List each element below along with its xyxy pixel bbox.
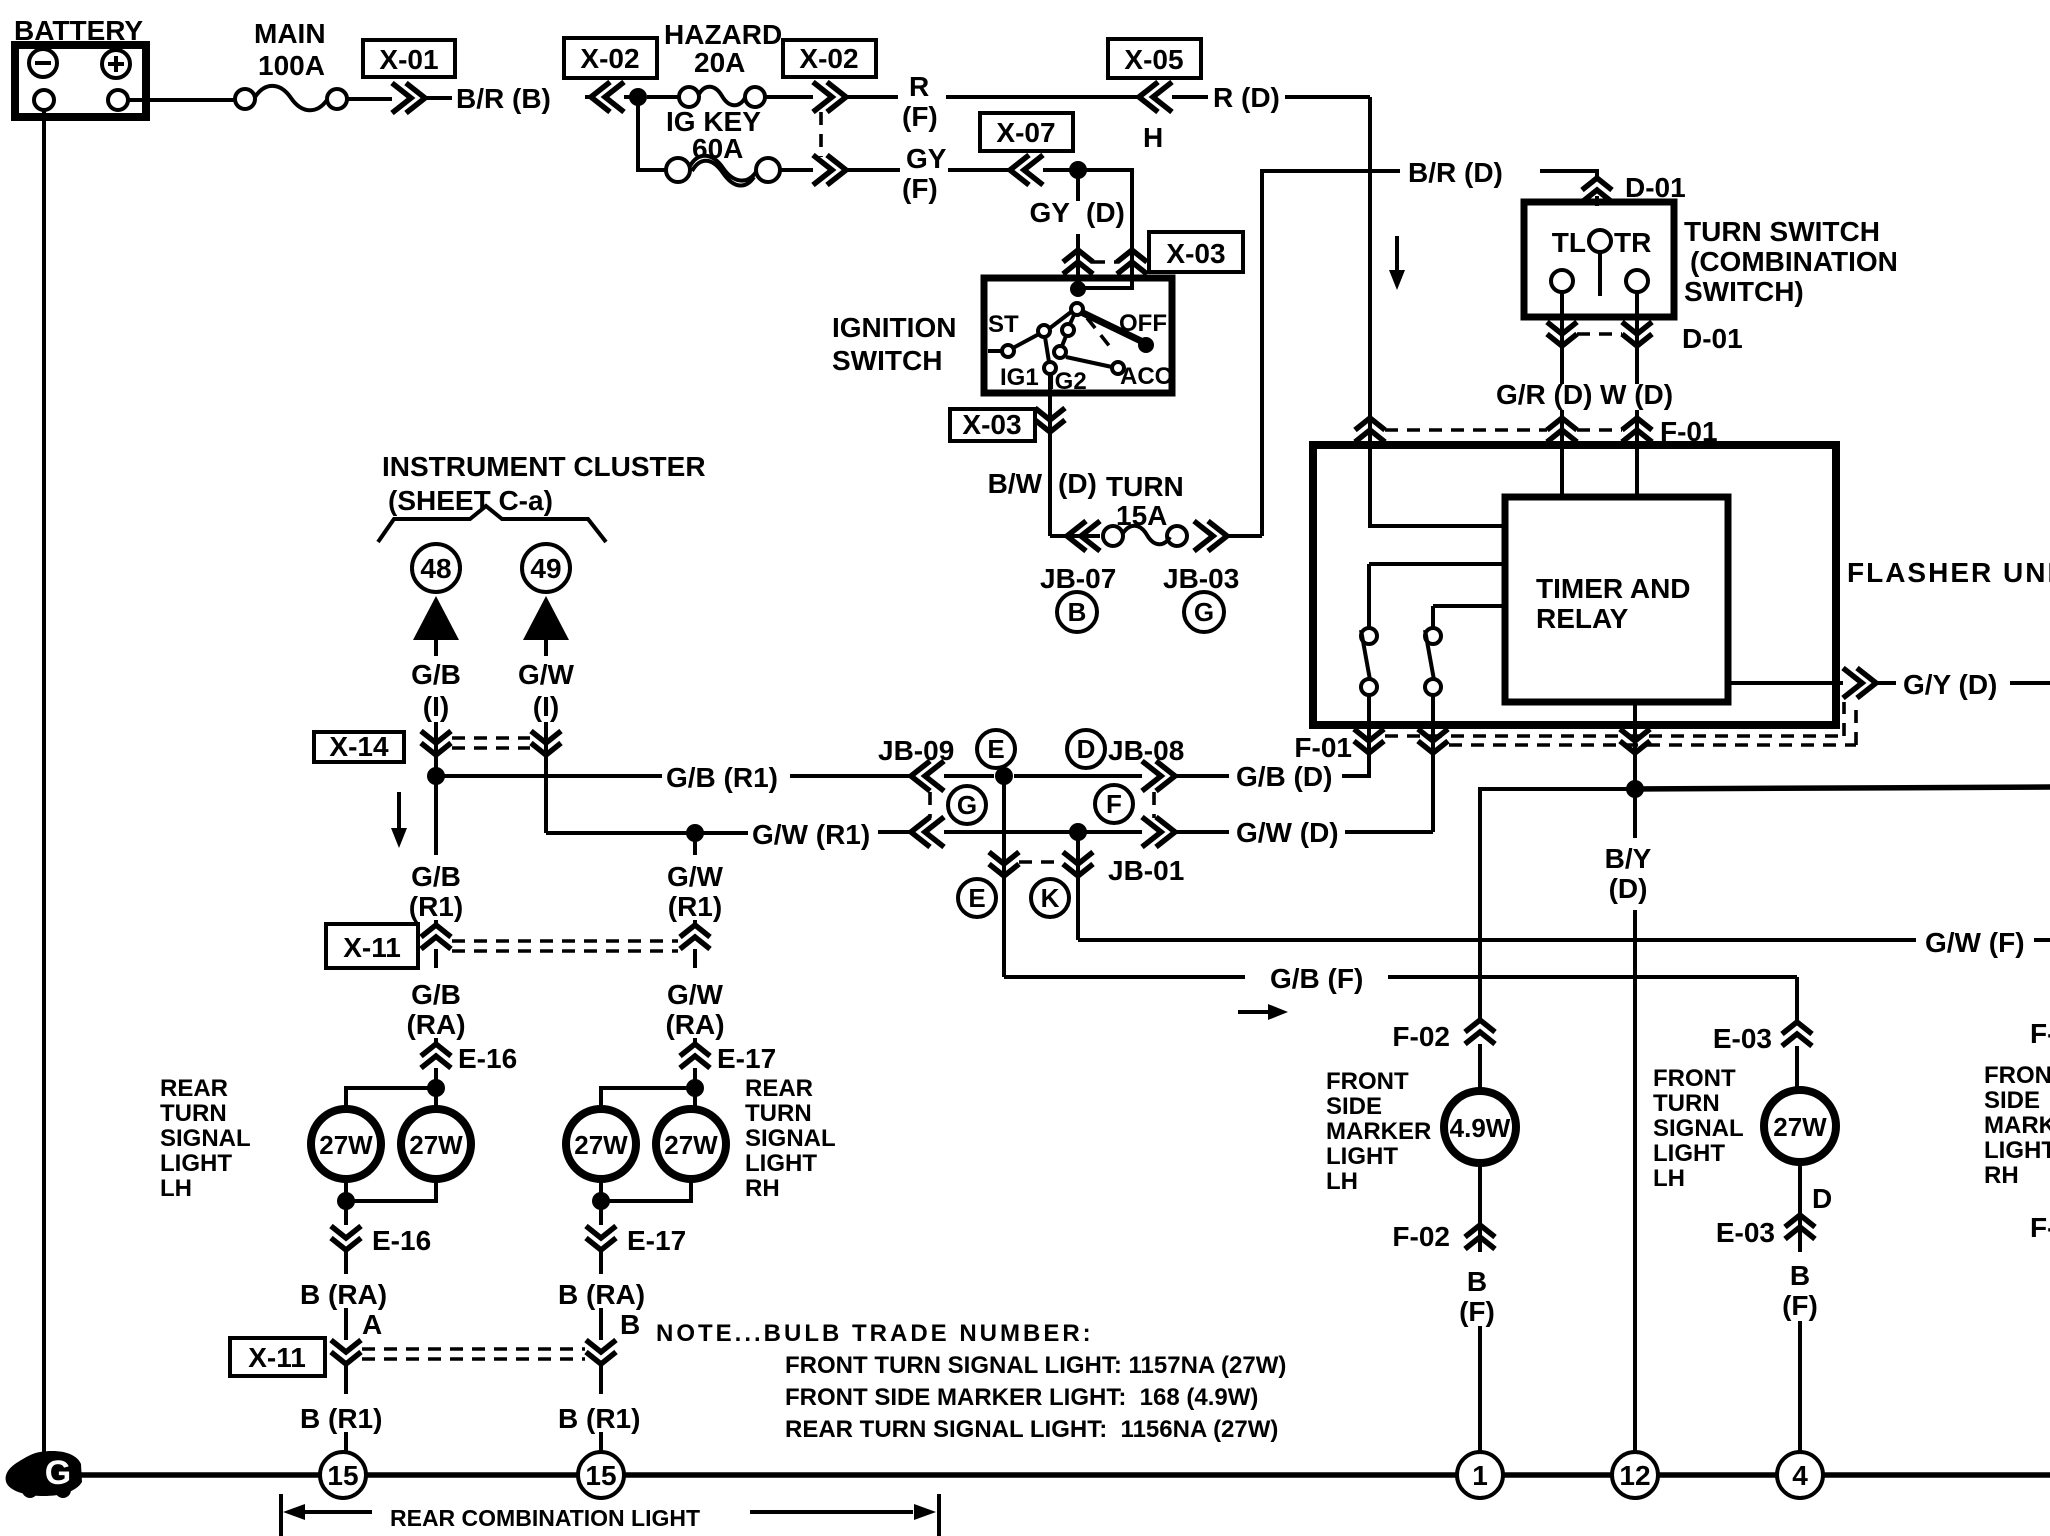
timer and relay U2 bbox=[1505, 497, 1728, 702]
wire G/W (R1) row bbox=[546, 819, 1142, 850]
svg-text:E-16: E-16 bbox=[458, 1043, 517, 1074]
svg-text:(I): (I) bbox=[533, 691, 559, 722]
rear turn LH label bbox=[160, 1075, 251, 1202]
svg-text:15: 15 bbox=[585, 1460, 616, 1491]
svg-text:E-17: E-17 bbox=[627, 1225, 686, 1256]
svg-text:SIDE: SIDE bbox=[1326, 1093, 1382, 1120]
svg-text:SIGNAL: SIGNAL bbox=[160, 1125, 251, 1152]
junction block JB-09 bbox=[878, 730, 1015, 847]
ground node 4 bbox=[1777, 1452, 1823, 1498]
svg-text:SIDE: SIDE bbox=[1984, 1087, 2040, 1114]
svg-text:TIMER AND: TIMER AND bbox=[1536, 573, 1691, 604]
connector X-05 bbox=[1108, 39, 1208, 112]
bulb rear LH 27W b bbox=[401, 1109, 471, 1179]
cluster pin 49 bbox=[522, 544, 570, 592]
svg-text:FRONT TURN SIGNAL LIGHT: 1157N: FRONT TURN SIGNAL LIGHT: 1157NA (27W) bbox=[785, 1352, 1286, 1379]
wire battery negative to ground bbox=[42, 110, 46, 1452]
wire label B/Y (D) bbox=[1605, 789, 1652, 1452]
svg-text:LH: LH bbox=[1653, 1165, 1685, 1192]
svg-text:X-14: X-14 bbox=[329, 731, 389, 762]
svg-text:FRONT SIDE MARKER LIGHT: 168: FRONT SIDE MARKER LIGHT: 168 (4.9W) bbox=[785, 1384, 1258, 1411]
connector X-02 left bbox=[564, 38, 657, 112]
svg-text:27W: 27W bbox=[574, 1130, 628, 1160]
svg-text:G/W: G/W bbox=[518, 659, 575, 690]
wire rear LH bottom branch bbox=[346, 1180, 436, 1225]
svg-text:TL: TL bbox=[1552, 227, 1586, 258]
svg-text:REAR COMBINATION LIGHT: REAR COMBINATION LIGHT bbox=[390, 1505, 700, 1531]
bulb rear RH 27W b bbox=[656, 1109, 726, 1179]
wire label G/W (R1) vertical bbox=[667, 833, 724, 925]
connector X-14 bbox=[314, 731, 561, 762]
node rear RH top junction bbox=[686, 1079, 704, 1097]
wire label B (RA) right bbox=[558, 1279, 645, 1340]
junction block JB-01 bbox=[958, 852, 1184, 917]
cluster pin 48 bbox=[412, 544, 460, 592]
svg-text:D-01: D-01 bbox=[1682, 323, 1743, 354]
junction block JB-03 bbox=[1163, 563, 1239, 632]
connector X-03 upper box bbox=[1149, 232, 1243, 272]
front side marker RH label partial bbox=[1984, 1018, 2050, 1243]
wire label G/B (RA) bbox=[406, 979, 465, 1044]
instrument cluster brace bbox=[378, 506, 606, 542]
svg-text:TURN: TURN bbox=[1653, 1090, 1720, 1117]
svg-text:IGNITION: IGNITION bbox=[832, 312, 956, 343]
svg-text:B (RA): B (RA) bbox=[300, 1279, 387, 1310]
svg-text:TURN: TURN bbox=[745, 1100, 812, 1127]
wire G/Y (D) output bbox=[1728, 668, 2050, 700]
svg-text:FRONT: FRONT bbox=[1984, 1062, 2050, 1089]
svg-text:F-02: F-02 bbox=[1392, 1221, 1450, 1252]
wire TR out bbox=[1635, 292, 1639, 384]
connector X-03 upper chevrons bbox=[1063, 250, 1147, 274]
svg-text:GY: GY bbox=[1030, 197, 1071, 228]
svg-text:X-11: X-11 bbox=[248, 1342, 306, 1373]
svg-text:R: R bbox=[909, 71, 929, 102]
svg-text:F: F bbox=[1106, 789, 1122, 819]
wire label B/R (B) bbox=[427, 83, 594, 114]
svg-text:GY: GY bbox=[906, 143, 947, 174]
svg-text:12: 12 bbox=[1619, 1460, 1650, 1491]
svg-text:F-: F- bbox=[2030, 1212, 2050, 1243]
svg-text:F-: F- bbox=[2030, 1018, 2050, 1049]
svg-text:MARKER: MARKER bbox=[1326, 1118, 1431, 1145]
wire G/B junction down bbox=[1002, 776, 1006, 977]
wire label B (F) turn bbox=[1782, 1260, 1818, 1452]
direction arrow down left column bbox=[391, 792, 407, 848]
ground node 12 bbox=[1612, 1452, 1658, 1498]
svg-text:G/W: G/W bbox=[667, 979, 724, 1010]
wire timer feed 3 bbox=[1433, 606, 1502, 628]
node rear RH bottom junction bbox=[592, 1192, 610, 1210]
svg-text:JB-03: JB-03 bbox=[1163, 563, 1239, 594]
svg-text:R (D): R (D) bbox=[1213, 82, 1280, 113]
fuse IG KEY 60A bbox=[666, 106, 813, 186]
svg-text:SWITCH): SWITCH) bbox=[1684, 276, 1804, 307]
svg-text:LIGHT: LIGHT bbox=[745, 1150, 817, 1177]
ground bus bbox=[76, 1472, 2050, 1478]
wire label G/R (D) bbox=[1496, 379, 1592, 500]
svg-text:MARKER: MARKER bbox=[1984, 1112, 2050, 1139]
connector E-17 upper bbox=[680, 1043, 776, 1088]
connector E-03 lower bbox=[1716, 1215, 1815, 1248]
wire label B/W (D) bbox=[988, 440, 1097, 536]
svg-text:G/B: G/B bbox=[411, 979, 461, 1010]
svg-text:INSTRUMENT CLUSTER: INSTRUMENT CLUSTER bbox=[382, 451, 706, 482]
svg-text:F-02: F-02 bbox=[1392, 1021, 1450, 1052]
svg-text:X-03: X-03 bbox=[1166, 238, 1225, 269]
rear turn RH label bbox=[745, 1075, 836, 1202]
wire G/B (F) long bbox=[1004, 963, 1797, 1020]
wire label G/B (I) bbox=[411, 659, 461, 776]
svg-text:G: G bbox=[957, 790, 977, 820]
ignition switch label bbox=[832, 312, 956, 376]
wire G/B (D) from relay S1 bbox=[1175, 758, 1369, 792]
svg-text:REAR TURN SIGNAL LIGHT: 1156N: REAR TURN SIGNAL LIGHT: 1156NA (27W) bbox=[785, 1416, 1278, 1443]
wire G/W (F) long bbox=[1078, 927, 2050, 958]
wire branch to front side marker LH bbox=[1480, 789, 1635, 1020]
svg-text:H: H bbox=[1143, 122, 1163, 153]
svg-text:20A: 20A bbox=[694, 47, 745, 78]
svg-text:X-07: X-07 bbox=[996, 117, 1055, 148]
svg-text:FLASHER UNIT: FLASHER UNIT bbox=[1847, 557, 2050, 588]
svg-text:LIGHT: LIGHT bbox=[1326, 1143, 1398, 1170]
wire rear RH bottom branch bbox=[601, 1180, 691, 1225]
connector X-02 right bbox=[783, 40, 876, 185]
svg-text:(D): (D) bbox=[1058, 468, 1097, 499]
connector X-03 lower bbox=[950, 408, 1065, 441]
svg-text:E: E bbox=[987, 734, 1004, 764]
relay contact S1 bbox=[1361, 628, 1377, 758]
svg-text:A: A bbox=[362, 1309, 382, 1340]
ground node 15 right bbox=[578, 1452, 624, 1498]
ground symbol G bbox=[6, 1451, 82, 1498]
wire bold right feed to RH side marker bbox=[1635, 787, 2050, 789]
svg-text:X-05: X-05 bbox=[1124, 44, 1183, 75]
fuse TURN 15A bbox=[1050, 471, 1262, 551]
wire GY right branch to ignition switch bbox=[1078, 170, 1132, 288]
svg-text:1: 1 bbox=[1472, 1460, 1488, 1491]
svg-text:(D): (D) bbox=[1086, 197, 1125, 228]
svg-text:D: D bbox=[1812, 1183, 1832, 1214]
svg-text:LIGHT: LIGHT bbox=[160, 1150, 232, 1177]
connector F-02 upper bbox=[1392, 1020, 1495, 1092]
connector E-16 lower bbox=[331, 1225, 431, 1274]
svg-text:B: B bbox=[1790, 1260, 1810, 1291]
svg-text:REAR: REAR bbox=[745, 1075, 813, 1102]
svg-text:(D): (D) bbox=[1609, 873, 1648, 904]
wire label G/B (R1) vertical bbox=[409, 776, 463, 925]
dimension rear combination light bbox=[281, 1494, 939, 1536]
svg-text:(F): (F) bbox=[1459, 1296, 1495, 1327]
svg-text:B/W: B/W bbox=[988, 468, 1043, 499]
direction arrow right under G/B (F) bbox=[1238, 1004, 1288, 1020]
svg-text:LIGHT: LIGHT bbox=[1653, 1140, 1725, 1167]
connector D-01 bottom bbox=[1547, 322, 1743, 354]
connector E-17 lower bbox=[586, 1225, 686, 1274]
ignition switch U1 bbox=[984, 278, 1172, 395]
label H bbox=[1143, 122, 1163, 153]
svg-text:B/R (D): B/R (D) bbox=[1408, 157, 1503, 188]
ground node 15 left bbox=[320, 1452, 366, 1498]
svg-text:F-01: F-01 bbox=[1294, 732, 1352, 763]
svg-text:4: 4 bbox=[1792, 1460, 1808, 1491]
svg-text:FRONT: FRONT bbox=[1653, 1065, 1736, 1092]
arrow into pin 49 bbox=[523, 596, 569, 656]
svg-text:FRONT: FRONT bbox=[1326, 1068, 1409, 1095]
svg-text:B/R (B): B/R (B) bbox=[456, 83, 551, 114]
connector F-01 top row bbox=[1355, 416, 1718, 447]
svg-text:IG1: IG1 bbox=[1000, 364, 1039, 391]
wire label R (D) bbox=[1213, 82, 1370, 113]
svg-text:(SHEET C-a): (SHEET C-a) bbox=[388, 485, 553, 516]
svg-text:LH: LH bbox=[160, 1175, 192, 1202]
wire battery positive to fuse bbox=[128, 98, 235, 102]
wire timer feed 2 bbox=[1369, 564, 1502, 628]
svg-text:15: 15 bbox=[327, 1460, 358, 1491]
svg-text:4.9W: 4.9W bbox=[1450, 1113, 1511, 1143]
svg-text:LH: LH bbox=[1326, 1168, 1358, 1195]
svg-text:SIGNAL: SIGNAL bbox=[1653, 1115, 1744, 1142]
flasher unit label bbox=[1847, 557, 2050, 588]
svg-text:JB-07: JB-07 bbox=[1040, 563, 1116, 594]
svg-text:E: E bbox=[968, 883, 985, 913]
NOTE text block bbox=[656, 1320, 1286, 1443]
svg-text:G/B: G/B bbox=[411, 659, 461, 690]
svg-text:E-03: E-03 bbox=[1713, 1023, 1772, 1054]
wire TL out bbox=[1560, 292, 1564, 384]
svg-text:TURN SWITCH: TURN SWITCH bbox=[1684, 216, 1880, 247]
svg-text:RELAY: RELAY bbox=[1536, 603, 1629, 634]
svg-text:(RA): (RA) bbox=[665, 1009, 724, 1040]
wire ignition output bbox=[1048, 374, 1052, 440]
bulb rear LH 27W a bbox=[311, 1109, 381, 1179]
svg-text:TURN: TURN bbox=[1106, 471, 1184, 502]
wire label R (F) bbox=[848, 71, 1140, 132]
svg-text:G/R (D): G/R (D) bbox=[1496, 379, 1592, 410]
svg-text:G/B: G/B bbox=[411, 861, 461, 892]
svg-text:(R1): (R1) bbox=[409, 891, 463, 922]
node rear LH top junction bbox=[427, 1079, 445, 1097]
wire label G/W (RA) bbox=[665, 979, 724, 1044]
svg-text:(COMBINATION: (COMBINATION bbox=[1690, 246, 1898, 277]
wire label B (R1) right bbox=[558, 1403, 640, 1452]
node G/W (R1) junction bbox=[686, 824, 704, 842]
bulb front side marker 4.9W bbox=[1444, 1091, 1516, 1163]
bulb rear RH 27W a bbox=[566, 1109, 636, 1179]
svg-text:27W: 27W bbox=[319, 1130, 373, 1160]
svg-text:B (R1): B (R1) bbox=[300, 1403, 382, 1434]
connector E-16 upper bbox=[421, 1043, 517, 1088]
svg-text:49: 49 bbox=[530, 553, 561, 584]
connector F-02 lower bbox=[1392, 1161, 1495, 1252]
svg-text:G/B (R1): G/B (R1) bbox=[666, 762, 778, 793]
turn switch SW1 bbox=[1524, 202, 1674, 317]
svg-text:X-02: X-02 bbox=[580, 43, 639, 74]
instrument cluster label bbox=[382, 451, 706, 516]
svg-text:(R1): (R1) bbox=[668, 891, 722, 922]
svg-text:JB-01: JB-01 bbox=[1108, 855, 1184, 886]
wire label W (D) bbox=[1600, 379, 1673, 500]
svg-text:ST: ST bbox=[988, 311, 1019, 338]
svg-text:LIGHT: LIGHT bbox=[1984, 1137, 2050, 1164]
fuse HAZARD 20A bbox=[647, 19, 813, 107]
svg-text:G: G bbox=[1194, 597, 1214, 627]
svg-text:B: B bbox=[620, 1309, 640, 1340]
ground node 1 bbox=[1457, 1452, 1503, 1498]
relay contact S2 bbox=[1425, 628, 1441, 832]
connector X-11 upper bbox=[326, 924, 710, 968]
wire fuse to X-01 bbox=[347, 97, 392, 101]
svg-text:TR: TR bbox=[1614, 227, 1651, 258]
arrow into pin 48 bbox=[413, 596, 459, 656]
node B/Y junction bbox=[1626, 780, 1644, 798]
wire G/B (R1) row bbox=[436, 762, 1142, 793]
svg-text:SIGNAL: SIGNAL bbox=[745, 1125, 836, 1152]
svg-text:E-17: E-17 bbox=[717, 1043, 776, 1074]
svg-text:X-01: X-01 bbox=[379, 44, 438, 75]
wire label G/W (I) bbox=[518, 659, 575, 833]
svg-text:B (R1): B (R1) bbox=[558, 1403, 640, 1434]
svg-text:(I): (I) bbox=[423, 691, 449, 722]
svg-text:X-03: X-03 bbox=[962, 409, 1021, 440]
svg-text:X-02: X-02 bbox=[799, 43, 858, 74]
svg-text:D-01: D-01 bbox=[1625, 172, 1686, 203]
wire rear LH top branch bbox=[346, 1088, 436, 1108]
svg-text:K: K bbox=[1041, 883, 1060, 913]
svg-text:B/Y: B/Y bbox=[1605, 843, 1652, 874]
wire label B (RA) left bbox=[300, 1279, 387, 1340]
svg-text:(RA): (RA) bbox=[406, 1009, 465, 1040]
svg-text:W (D): W (D) bbox=[1600, 379, 1673, 410]
front side marker LH label bbox=[1326, 1068, 1431, 1195]
svg-text:D: D bbox=[1077, 734, 1096, 764]
svg-text:G/Y (D): G/Y (D) bbox=[1903, 669, 1997, 700]
node G/B (D) junction bbox=[995, 767, 1013, 785]
svg-text:G/W (R1): G/W (R1) bbox=[752, 819, 870, 850]
wire timer bottom out bbox=[1633, 702, 1637, 789]
fuse MAIN 100A bbox=[235, 18, 347, 110]
svg-text:REAR: REAR bbox=[160, 1075, 228, 1102]
wire G/W (D) from relay S2 bbox=[1175, 817, 1433, 848]
connector D-01 top bbox=[1582, 172, 1686, 206]
wire rear RH top branch bbox=[601, 1088, 695, 1108]
svg-text:27W: 27W bbox=[664, 1130, 718, 1160]
node G/B (R1) junction bbox=[427, 767, 445, 785]
svg-text:E-16: E-16 bbox=[372, 1225, 431, 1256]
svg-text:48: 48 bbox=[420, 553, 451, 584]
node G/W (D) junction bbox=[1069, 823, 1087, 841]
wire label B (R1) left bbox=[300, 1403, 382, 1452]
svg-text:MAIN: MAIN bbox=[254, 18, 326, 49]
junction block JB-08 bbox=[1067, 730, 1184, 847]
svg-text:RH: RH bbox=[1984, 1162, 2019, 1189]
svg-text:X-11: X-11 bbox=[343, 932, 401, 963]
svg-text:27W: 27W bbox=[409, 1130, 463, 1160]
battery B1 bbox=[15, 45, 146, 117]
svg-text:B (RA): B (RA) bbox=[558, 1279, 645, 1310]
svg-text:G/W: G/W bbox=[667, 861, 724, 892]
svg-text:ACC: ACC bbox=[1120, 363, 1172, 390]
node GY junction bbox=[1069, 161, 1087, 179]
wire label D pin bbox=[1800, 1160, 1832, 1252]
svg-text:HAZARD: HAZARD bbox=[664, 19, 782, 50]
junction block JB-07 bbox=[1040, 563, 1116, 632]
svg-text:RH: RH bbox=[745, 1175, 780, 1202]
wire G/W junction down bbox=[1076, 832, 1080, 940]
svg-text:G/W (D): G/W (D) bbox=[1236, 817, 1339, 848]
connector X-01 bbox=[363, 40, 455, 113]
svg-text:(F): (F) bbox=[902, 173, 938, 204]
svg-text:G/B (F): G/B (F) bbox=[1270, 963, 1363, 994]
svg-text:TURN: TURN bbox=[160, 1100, 227, 1127]
bulb front turn LH 27W bbox=[1764, 1090, 1836, 1162]
svg-text:B: B bbox=[1467, 1266, 1487, 1297]
turn switch label bbox=[1684, 216, 1898, 307]
svg-text:G/B (D): G/B (D) bbox=[1236, 761, 1332, 792]
connector E-03 upper bbox=[1713, 1022, 1812, 1091]
node junction hazard/igkey bbox=[629, 88, 647, 106]
svg-text:G/W (F): G/W (F) bbox=[1925, 927, 2025, 958]
wire junction down to IG KEY fuse bbox=[638, 97, 665, 170]
wire B/R (D) from turn fuse up to turn switch bbox=[1262, 157, 1597, 536]
svg-text:(F): (F) bbox=[1782, 1290, 1818, 1321]
svg-text:100A: 100A bbox=[258, 50, 325, 81]
svg-text:27W: 27W bbox=[1773, 1112, 1827, 1142]
node rear LH bottom junction bbox=[337, 1192, 355, 1210]
wire R (D) down to flasher timer bbox=[1370, 97, 1505, 526]
svg-text:SWITCH: SWITCH bbox=[832, 345, 942, 376]
svg-text:E-03: E-03 bbox=[1716, 1217, 1775, 1248]
wire label GY (F) bbox=[848, 143, 1010, 204]
direction arrow down near flasher bbox=[1389, 236, 1405, 290]
battery label bbox=[14, 15, 143, 46]
svg-text:(F): (F) bbox=[902, 101, 938, 132]
connector F-01 bottom row bbox=[1294, 702, 1856, 763]
flasher unit box bbox=[1313, 445, 1836, 725]
wire label GY (D) bbox=[1030, 178, 1125, 289]
svg-text:NOTE...BULB TRADE NUMBER:: NOTE...BULB TRADE NUMBER: bbox=[656, 1320, 1094, 1347]
wire label B (F) marker bbox=[1459, 1266, 1495, 1452]
connector X-07 bbox=[980, 113, 1073, 185]
connector X-11 lower bbox=[230, 1338, 616, 1394]
svg-text:G: G bbox=[45, 1454, 71, 1492]
svg-text:B: B bbox=[1068, 597, 1087, 627]
front turn LH label bbox=[1653, 1065, 1744, 1192]
